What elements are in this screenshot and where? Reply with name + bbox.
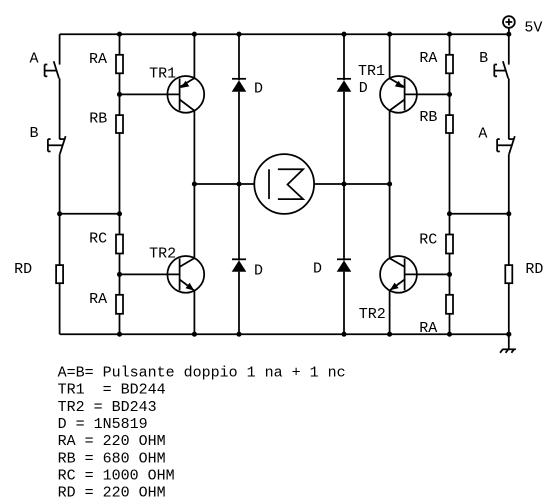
node junction row switch right bbox=[506, 211, 511, 216]
resistor RD left bbox=[56, 265, 63, 283]
diode D1 left top (1N5819) bbox=[232, 79, 247, 92]
resistor RA left top bbox=[116, 55, 123, 74]
wire diode D2 to bottom rail bbox=[238, 272, 240, 335]
node top rail RA left bbox=[117, 32, 122, 37]
wire left switch column middle bbox=[59, 78, 61, 139]
svg-text:TR2: TR2 bbox=[149, 245, 176, 262]
svg-text:RD = 220 OHM: RD = 220 OHM bbox=[58, 485, 166, 497]
wire diode D4 to bottom rail bbox=[343, 272, 345, 335]
wire RA left bottom to rail bbox=[119, 314, 121, 334]
wire RA right to TR1 base node bbox=[449, 73, 451, 115]
svg-text:TR1 = BD244: TR1 = BD244 bbox=[58, 382, 166, 399]
wire right switch column lower bbox=[508, 154, 510, 265]
pushbutton B left (NC contact) bbox=[48, 136, 66, 154]
node motor row TR left bbox=[192, 181, 197, 186]
wire motor row right bbox=[314, 183, 390, 185]
svg-text:RC = 1000 OHM: RC = 1000 OHM bbox=[58, 468, 175, 485]
node bottom rail RA right bbox=[447, 332, 452, 337]
node junction row RB left bbox=[117, 211, 122, 216]
svg-text:RB: RB bbox=[89, 111, 107, 128]
svg-text:TR2 = BD243: TR2 = BD243 bbox=[58, 399, 157, 416]
node motor row D left bbox=[236, 181, 241, 186]
legend text bbox=[58, 365, 346, 497]
wire top rail to diode D1 bbox=[238, 34, 240, 80]
resistor RA left bottom bbox=[116, 295, 123, 314]
wire RB right to junction row bbox=[449, 133, 451, 235]
svg-text:RD: RD bbox=[525, 261, 543, 278]
wire RD left to bottom rail bbox=[59, 283, 61, 334]
svg-text:RA: RA bbox=[419, 320, 437, 337]
wire left resistor column top bbox=[119, 34, 121, 55]
pushbutton A right (NC contact) bbox=[497, 136, 515, 154]
resistor RB left bbox=[116, 115, 123, 133]
node top rail TR1 left bbox=[192, 32, 197, 37]
node top rail TR1 right bbox=[387, 32, 392, 37]
wire left switch column lower bbox=[59, 154, 61, 265]
transistor TR1 left (PNP) bbox=[167, 76, 204, 113]
pushbutton A left (NO contact) bbox=[45, 61, 59, 78]
wire RC to TR2 base node bbox=[119, 254, 121, 295]
node bottom rail D2 bbox=[236, 332, 241, 337]
motor M1 bbox=[254, 154, 314, 214]
svg-text:B: B bbox=[30, 125, 39, 142]
wire diode D1 to motor node left bbox=[238, 92, 240, 184]
svg-text:D: D bbox=[254, 81, 263, 98]
svg-text:RA: RA bbox=[89, 51, 107, 68]
wire RA to TR1 base node bbox=[119, 73, 121, 115]
ground bbox=[500, 349, 516, 353]
wire TR2 right emitter to bottom rail bbox=[389, 291, 391, 335]
wire junction row right link bbox=[450, 213, 509, 215]
transistor TR2 right (NPN) bbox=[380, 256, 417, 293]
wire TR1 left base bbox=[120, 93, 180, 95]
wire TR2 right base bbox=[405, 273, 450, 275]
svg-text:RA = 220 OHM: RA = 220 OHM bbox=[58, 433, 166, 450]
svg-text:5V: 5V bbox=[524, 19, 542, 36]
wire diode D3 to motor node right bbox=[343, 92, 345, 184]
svg-text:RB: RB bbox=[419, 109, 437, 126]
wire top rail +5V bbox=[60, 33, 509, 35]
resistor RB right bbox=[446, 115, 453, 133]
wire motor row left bbox=[194, 183, 254, 185]
node bottom rail ground bbox=[506, 332, 511, 337]
node TR1 left base bbox=[117, 92, 122, 97]
diode D2 left bottom (1N5819) bbox=[232, 259, 247, 271]
diode D3 right top (1N5819) bbox=[337, 79, 352, 92]
node motor row TR right bbox=[387, 181, 392, 186]
svg-text:A: A bbox=[478, 125, 487, 142]
svg-text:D = 1N5819: D = 1N5819 bbox=[58, 416, 148, 433]
resistor RA right bottom bbox=[446, 295, 453, 314]
wire TR1 right collector to motor node bbox=[389, 111, 391, 259]
svg-text:RC: RC bbox=[89, 231, 107, 248]
svg-text:D: D bbox=[359, 80, 368, 97]
wire RD right to bottom rail bbox=[508, 283, 510, 334]
svg-text:RA: RA bbox=[419, 50, 437, 67]
node junction row switch left bbox=[57, 211, 62, 216]
wire TR2 left base bbox=[120, 273, 180, 275]
node TR1 right base bbox=[447, 92, 452, 97]
svg-text:B: B bbox=[479, 50, 488, 67]
svg-text:RA: RA bbox=[89, 291, 107, 308]
svg-text:D: D bbox=[313, 260, 322, 277]
wire junction row left link bbox=[60, 213, 120, 215]
node TR2 left base bbox=[117, 272, 122, 277]
node motor row D right bbox=[341, 181, 346, 186]
diode D4 right bottom (1N5819) bbox=[337, 259, 352, 271]
resistor RC right bbox=[446, 235, 453, 254]
svg-text:RC: RC bbox=[419, 231, 437, 248]
wire bottom rail ground bbox=[60, 333, 509, 335]
resistor RD right bbox=[505, 265, 512, 283]
node top rail +5V bbox=[506, 32, 511, 37]
svg-text:RB = 680 OHM: RB = 680 OHM bbox=[58, 450, 166, 467]
wire left switch column upper bbox=[59, 34, 61, 64]
wire top rail to diode D3 bbox=[343, 34, 345, 80]
svg-text:TR2: TR2 bbox=[359, 306, 386, 323]
wire bottom rail to ground bbox=[508, 334, 510, 349]
wire right switch column middle bbox=[508, 78, 510, 139]
wire RA right bottom to rail bbox=[449, 314, 451, 334]
wire TR2 left emitter to bottom rail bbox=[193, 291, 195, 335]
resistor RA right top bbox=[446, 55, 453, 74]
transistor TR1 right (PNP) bbox=[380, 76, 417, 113]
wire top rail to TR1 right emitter bbox=[389, 34, 391, 78]
wire TR1 left collector to motor node bbox=[193, 111, 195, 258]
resistor RC left bbox=[116, 235, 123, 254]
node junction row RB right bbox=[447, 211, 452, 216]
svg-text:TR1: TR1 bbox=[358, 63, 385, 80]
wire motor node right to diode D4 bbox=[343, 184, 345, 260]
svg-text:RD: RD bbox=[14, 261, 32, 278]
wire motor node left to diode D2 bbox=[238, 184, 240, 260]
power +5V terminal bbox=[503, 16, 515, 34]
wire right switch column upper bbox=[508, 34, 510, 64]
svg-text:A: A bbox=[30, 50, 39, 67]
node TR2 right base bbox=[447, 272, 452, 277]
node top rail D3 bbox=[341, 32, 346, 37]
wire RC right to TR2 base node bbox=[449, 254, 451, 295]
svg-text:D: D bbox=[254, 263, 263, 280]
node bottom rail D4 bbox=[341, 332, 346, 337]
node top rail RA right bbox=[447, 32, 452, 37]
node bottom rail TR2 right bbox=[387, 332, 392, 337]
node top rail D1 bbox=[236, 32, 241, 37]
wire TR1 right base bbox=[405, 93, 450, 95]
svg-text:A=B= Pulsante doppio 1 na + 1: A=B= Pulsante doppio 1 na + 1 nc bbox=[58, 365, 346, 382]
pushbutton B right (NO contact) bbox=[494, 61, 508, 78]
wire right resistor column top bbox=[449, 34, 451, 55]
node bottom rail TR2 left bbox=[192, 332, 197, 337]
svg-text:TR1: TR1 bbox=[149, 66, 176, 83]
wire top rail to TR1 left emitter bbox=[193, 34, 195, 78]
wire RB to junction row bbox=[119, 133, 121, 235]
transistor TR2 left (NPN) bbox=[167, 256, 204, 293]
node bottom rail RA left bbox=[117, 332, 122, 337]
